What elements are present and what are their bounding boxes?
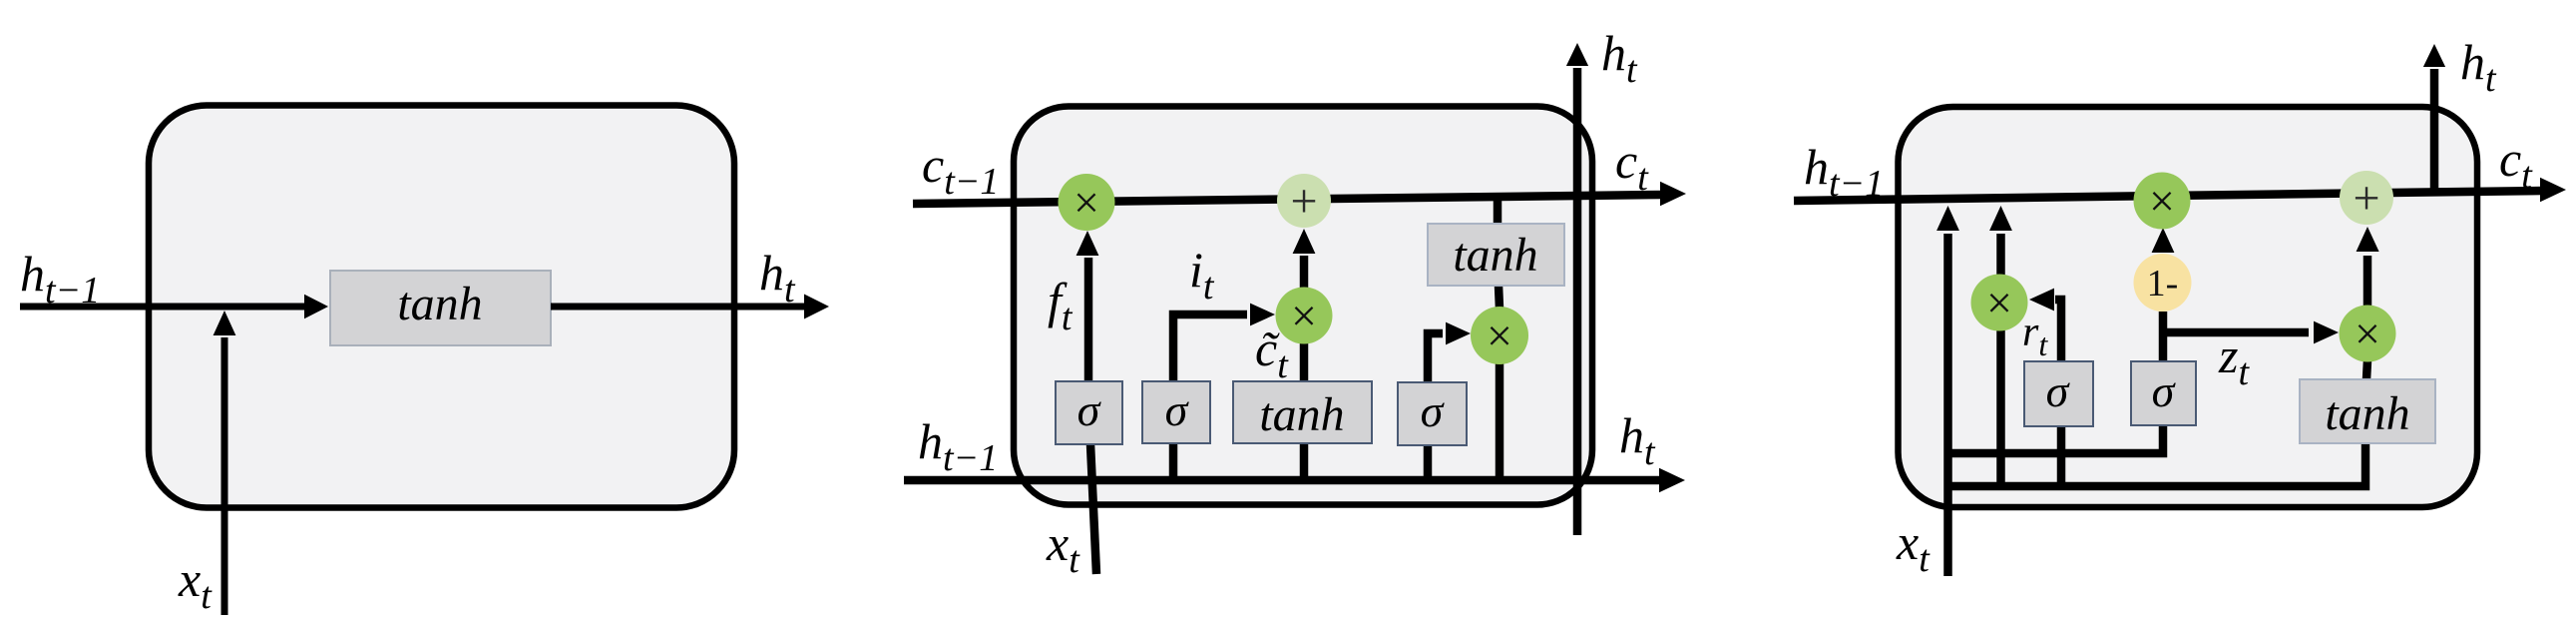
svg-text:σ: σ (1165, 384, 1190, 435)
arrowhead sigma3 into mult (1446, 322, 1471, 345)
wire r_t elbow from sigma1 (2055, 300, 2061, 361)
wire x_t vertical (1943, 234, 1952, 576)
wire reset path vertical (1996, 234, 2005, 486)
svg-text:tanh: tanh (397, 278, 482, 330)
svg-text:xt: xt (178, 551, 213, 617)
tanh box right (1428, 224, 1564, 286)
svg-text:tanh: tanh (2325, 387, 2409, 440)
mult node output gate (1471, 307, 1528, 364)
tanh box U1 (330, 271, 551, 345)
svg-text:ht: ht (1619, 407, 1656, 473)
tanh box candidate (1233, 381, 1372, 443)
wire z_t branch (2163, 328, 2309, 337)
wire sigma3 down (1424, 445, 1433, 481)
svg-text:×: × (1073, 177, 1099, 228)
wire tanh right down to mult (1499, 286, 1500, 309)
wire tanh top to mult (2366, 360, 2367, 379)
arrowhead x_t up (214, 311, 236, 335)
svg-text:ct−1: ct−1 (922, 137, 999, 203)
LSTM cell box (1014, 107, 1592, 505)
arrowhead reset to h line (1989, 206, 2012, 231)
svg-text:ht: ht (2460, 34, 2497, 100)
plus node cell state (1277, 174, 1331, 228)
svg-text:xt: xt (1896, 514, 1931, 580)
svg-text:σ: σ (1077, 384, 1102, 435)
svg-text:tanh: tanh (1453, 229, 1537, 282)
tanh box GRU (2300, 379, 2435, 443)
wire mult down to h line (1496, 363, 1504, 480)
wire tanh mid down (1300, 443, 1309, 481)
mult node candidate (1276, 288, 1333, 344)
mult node top (z gate) (2134, 173, 2191, 230)
arrowhead into tanh (304, 295, 328, 319)
svg-text:ht−1: ht−1 (20, 246, 100, 312)
svg-text:σ: σ (2152, 365, 2177, 416)
sigma3 box output gate (1398, 382, 1467, 445)
wire lower bus x_t to tanh (1947, 441, 2365, 486)
svg-text:×: × (1487, 311, 1512, 361)
mult node reset gate (1971, 275, 2028, 331)
arrowhead r_t into mult (2029, 289, 2054, 312)
svg-text:+: + (2353, 172, 2379, 225)
sigma1 box reset gate (2024, 361, 2093, 426)
wire upper bus x_t to sigma2 (1947, 425, 2163, 453)
svg-text:tanh: tanh (1259, 388, 1344, 441)
one-minus node (2134, 254, 2192, 312)
arrowhead into plus (2357, 227, 2379, 252)
wire c branch down to tanh right (1494, 198, 1503, 226)
wire h_{t-1} bottom to h_t (904, 476, 1661, 485)
svg-text:σ: σ (2046, 365, 2071, 416)
arrowhead c_t (1660, 182, 1686, 207)
svg-text:xt: xt (1046, 515, 1080, 581)
svg-text:ht−1: ht−1 (1804, 139, 1884, 205)
mult node forget gate (1059, 174, 1115, 231)
svg-text:×: × (1291, 291, 1317, 341)
wire x_t into sigma1 (1090, 444, 1096, 574)
wire candidate mult up to plus (1300, 256, 1309, 290)
wire h_{t-1} to c_t (1794, 191, 2542, 201)
svg-text:ht: ht (1601, 25, 1638, 91)
wire h_t up (2430, 69, 2439, 196)
wire tanh mid top to mult (1300, 343, 1309, 381)
sigma2 box input gate (1142, 381, 1210, 443)
arrowhead h_t up (1566, 43, 1588, 66)
arrowhead into mult node (1076, 231, 1099, 256)
svg-text:ct: ct (1615, 133, 1649, 199)
svg-text:×: × (2149, 176, 2175, 227)
arrowhead h_t bottom right (1659, 468, 1685, 493)
GRU cell box (1899, 107, 2478, 507)
mult node update gate (2340, 306, 2396, 362)
arrowhead 1- to mult top (2152, 228, 2175, 253)
arrowhead c_t out (2540, 178, 2566, 203)
arrowhead z_t into mult (2314, 321, 2339, 344)
wire update mult up to plus (2363, 256, 2372, 306)
svg-text:ht−1: ht−1 (918, 413, 998, 479)
RNN cell box (149, 106, 734, 508)
svg-text:×: × (1986, 278, 2012, 328)
wire c_{t-1} to c_t (913, 195, 1662, 204)
svg-text:ht: ht (759, 245, 796, 311)
arrowhead i_t (1250, 304, 1275, 326)
svg-text:1-: 1- (2147, 263, 2179, 305)
arrowhead into plus node (1293, 229, 1316, 254)
plus node (2340, 171, 2393, 225)
arrowhead h_t up (2423, 44, 2445, 67)
wire h_t up (vertical) (1573, 68, 1582, 535)
wire f_t from sigma1 up (1084, 258, 1093, 381)
wire x_t input (221, 337, 228, 615)
wire i_t elbow from sigma2 (1173, 314, 1247, 381)
sigma2 box update gate (2131, 361, 2196, 425)
wire sigma1 down to bus (2057, 425, 2066, 489)
arrowhead h_t output (804, 295, 829, 319)
wire h_{t-1} input (20, 304, 306, 311)
svg-text:+: + (1290, 175, 1317, 228)
arrowhead x_t to h line (1936, 206, 1959, 231)
wire sigma3 elbow (1428, 333, 1443, 382)
wire sigma2 down (1169, 443, 1178, 481)
wire h_t output (551, 304, 806, 311)
wire sigma2 up to 1- (2159, 312, 2168, 361)
sigma1 box forget gate (1056, 381, 1122, 444)
svg-text:σ: σ (1421, 385, 1446, 436)
svg-text:×: × (2355, 309, 2380, 359)
